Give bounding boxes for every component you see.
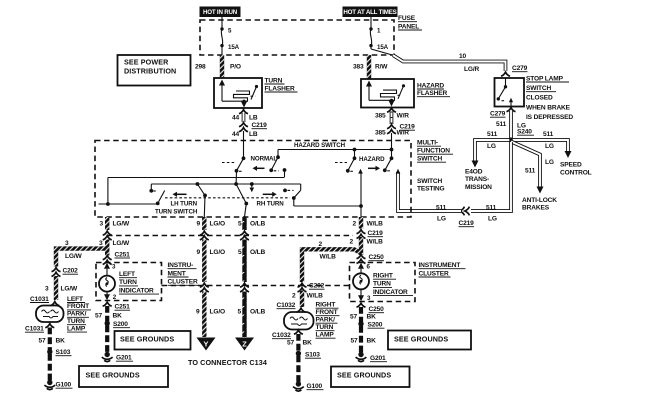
svg-text:511: 511 <box>525 168 536 175</box>
svg-text:TESTING: TESTING <box>417 186 445 193</box>
svg-text:LG/R: LG/R <box>464 66 480 73</box>
svg-text:C1032: C1032 <box>277 302 296 309</box>
svg-text:IS DEPRESSED: IS DEPRESSED <box>526 114 573 121</box>
wire 3 LG/W below switch <box>100 217 131 230</box>
connector C1032 upper <box>277 302 306 312</box>
wire 511 LG to anti-lock brakes <box>511 142 554 194</box>
svg-text:S240: S240 <box>517 129 532 136</box>
svg-text:PARK/: PARK/ <box>316 317 336 324</box>
svg-text:SEE GROUNDS: SEE GROUNDS <box>394 335 448 344</box>
svg-text:TURN SWITCH: TURN SWITCH <box>155 209 198 216</box>
svg-text:G201: G201 <box>370 355 386 362</box>
splice S200 right <box>358 321 384 328</box>
turn flasher label <box>265 77 298 92</box>
wire 44 LB into switch <box>243 141 245 159</box>
svg-text:SWITCH: SWITCH <box>417 156 442 163</box>
node anti-lock brakes <box>522 197 557 212</box>
svg-text:HOT AT ALL TIMES: HOT AT ALL TIMES <box>343 9 396 16</box>
svg-text:E4OD: E4OD <box>465 169 483 176</box>
svg-text:O/LB: O/LB <box>250 249 266 256</box>
svg-text:SEE GROUNDS: SEE GROUNDS <box>337 371 391 380</box>
svg-text:3: 3 <box>45 286 49 293</box>
wire 3 LG/W to left lamp <box>45 276 78 300</box>
svg-text:FLASHER: FLASHER <box>265 85 295 92</box>
svg-text:LG/W: LG/W <box>61 286 79 293</box>
turn flasher U1 <box>214 78 262 108</box>
svg-text:G100: G100 <box>307 383 323 390</box>
svg-text:INSTRUMENT: INSTRUMENT <box>419 262 461 269</box>
svg-text:LG: LG <box>545 143 554 150</box>
power label HOT IN RUN <box>200 7 241 18</box>
bus to hazard output <box>294 204 363 208</box>
svg-text:C219: C219 <box>368 230 384 237</box>
svg-text:STOP LAMP: STOP LAMP <box>526 75 564 82</box>
svg-text:HOT IN RUN: HOT IN RUN <box>203 9 238 16</box>
instrument cluster bottom boundary <box>162 285 350 287</box>
connector C250 <box>357 254 385 263</box>
svg-text:383: 383 <box>353 63 364 70</box>
see power distribution note box <box>118 55 191 86</box>
svg-text:S103: S103 <box>56 349 71 356</box>
svg-text:S200: S200 <box>113 321 128 328</box>
svg-text:RIGHT: RIGHT <box>316 302 336 309</box>
svg-text:TO CONNECTOR C134: TO CONNECTOR C134 <box>188 358 267 367</box>
left lamp label <box>67 296 91 333</box>
svg-text:Z: Z <box>242 340 247 349</box>
ground G100 right <box>293 381 324 391</box>
wire 2 W/LB branch to right lamp <box>302 241 361 282</box>
svg-text:S200: S200 <box>368 322 383 329</box>
connector on LG/O at cluster <box>200 231 209 240</box>
wire 511 LG to speed control <box>513 131 572 158</box>
splice S240 <box>508 129 534 143</box>
connector C1031 lower <box>25 324 54 333</box>
svg-text:2: 2 <box>292 293 296 300</box>
svg-text:BRAKES: BRAKES <box>522 205 550 212</box>
wire 385 W/R into switch <box>391 141 393 150</box>
splice S200 left <box>105 321 131 328</box>
splice S103 right <box>296 351 321 359</box>
connector C251 upper <box>103 251 130 264</box>
wire BK to G100 right <box>296 356 300 384</box>
svg-text:CLUSTER: CLUSTER <box>419 270 449 277</box>
wire 5 O/LB mid <box>238 240 266 283</box>
svg-text:LG/W: LG/W <box>65 253 83 260</box>
svg-text:LG/O: LG/O <box>210 249 226 256</box>
svg-text:BK: BK <box>56 337 66 344</box>
svg-text:CLOSED: CLOSED <box>526 95 553 102</box>
svg-text:RH TURN: RH TURN <box>257 200 285 207</box>
svg-text:C250: C250 <box>369 254 385 261</box>
svg-text:C250: C250 <box>369 306 385 313</box>
right turn indicator lamp <box>353 273 369 289</box>
svg-text:C202: C202 <box>63 268 79 275</box>
wire 3 LG/W to junction <box>99 240 130 256</box>
svg-text:5: 5 <box>238 221 242 228</box>
svg-text:FLASHER: FLASHER <box>417 90 447 97</box>
connector arrow Y <box>197 338 216 351</box>
svg-text:LAMP: LAMP <box>67 325 86 332</box>
fuse 5 (15A) <box>220 27 239 51</box>
left front park/turn lamp E1 <box>36 306 64 323</box>
svg-text:Y: Y <box>204 340 209 349</box>
wire 44 LB upper <box>232 113 258 122</box>
svg-text:57: 57 <box>351 338 359 345</box>
to connector C134 label <box>188 358 267 367</box>
wire 5 O/LB below switch <box>238 217 266 230</box>
normal contacts <box>235 155 287 177</box>
svg-text:C279: C279 <box>490 111 506 118</box>
svg-text:MENT: MENT <box>168 270 186 277</box>
svg-text:385: 385 <box>375 129 386 136</box>
svg-text:511: 511 <box>543 131 554 138</box>
svg-text:LEFT: LEFT <box>67 296 83 303</box>
right turn indicator exit arrow <box>358 289 371 302</box>
svg-text:FUNCTION: FUNCTION <box>417 148 450 155</box>
wire 385 W/R lower <box>375 129 409 140</box>
svg-text:5: 5 <box>238 309 242 316</box>
svg-text:P/O: P/O <box>230 63 241 70</box>
svg-text:3: 3 <box>100 221 104 228</box>
svg-text:2: 2 <box>353 221 357 228</box>
svg-text:298: 298 <box>195 63 206 70</box>
multi-function switch dashed box <box>95 141 411 218</box>
svg-text:SEE POWER: SEE POWER <box>124 58 169 67</box>
svg-text:C219: C219 <box>252 122 268 129</box>
svg-text:LG/W: LG/W <box>113 221 131 228</box>
svg-text:LG: LG <box>488 216 497 223</box>
svg-text:W/LB: W/LB <box>320 254 337 261</box>
svg-text:SEE GROUNDS: SEE GROUNDS <box>120 335 174 344</box>
svg-text:W/R: W/R <box>397 113 410 120</box>
svg-text:O/LB: O/LB <box>250 309 266 316</box>
wire 57 BK cluster left <box>95 306 122 322</box>
bus L2 <box>151 182 300 186</box>
svg-text:C219: C219 <box>459 220 475 227</box>
svg-text:LG: LG <box>545 159 554 166</box>
ground G100 left <box>44 380 72 390</box>
connector C219 (511 LG) <box>459 207 475 227</box>
svg-text:INDICATOR: INDICATOR <box>119 287 154 294</box>
wire 9 LG/O lower <box>196 292 225 338</box>
junction LG/W branch <box>56 240 107 266</box>
svg-text:HAZARD: HAZARD <box>359 156 385 163</box>
wire 511 LG splice to C219 <box>471 142 511 223</box>
ground G201 left <box>102 352 133 362</box>
svg-text:RIGHT: RIGHT <box>373 273 393 280</box>
svg-text:TURN: TURN <box>316 324 334 331</box>
svg-text:44: 44 <box>232 115 240 122</box>
hazard switch bus <box>278 142 393 157</box>
left turn indicator lamp <box>99 276 115 292</box>
svg-text:HAZARD: HAZARD <box>417 82 444 89</box>
mech link dashes normal <box>222 162 236 164</box>
svg-text:W/LB: W/LB <box>367 221 384 228</box>
RH turn contact group <box>236 184 301 217</box>
connector C279 lower <box>490 108 516 118</box>
svg-text:C251: C251 <box>115 304 131 311</box>
wire BK to G201 right <box>351 326 377 354</box>
connector C202 left <box>52 268 79 277</box>
wire 57 BK cluster right <box>350 307 376 322</box>
wire 511 LG stop lamp to splice <box>496 111 526 138</box>
ground G201 right <box>356 352 387 362</box>
wire 511 LG C219 to multifunction switch <box>398 172 461 223</box>
svg-text:INSTRU-: INSTRU- <box>168 262 194 269</box>
connector on LG/O at cluster bottom <box>200 283 209 292</box>
svg-text:LB: LB <box>249 115 258 122</box>
right lamp label <box>316 302 340 339</box>
svg-text:LEFT: LEFT <box>119 271 135 278</box>
connector C219 (W/LB) <box>357 230 384 239</box>
wire 9 LG/O mid <box>197 240 226 283</box>
svg-text:LAMP: LAMP <box>316 332 335 339</box>
svg-text:511: 511 <box>487 131 498 138</box>
stop lamp switch S1 <box>495 78 525 107</box>
connector on LG/W at cluster <box>103 231 112 240</box>
svg-text:LH TURN: LH TURN <box>171 200 198 207</box>
svg-text:WHEN BRAKE: WHEN BRAKE <box>526 104 571 111</box>
wire W/LB inside switch <box>360 171 362 218</box>
wiper to LG/O output <box>197 184 207 217</box>
svg-text:W/R: W/R <box>397 129 410 136</box>
svg-text:S103: S103 <box>305 352 320 359</box>
svg-text:TURN: TURN <box>265 77 283 84</box>
svg-text:C1032: C1032 <box>272 332 291 339</box>
svg-text:R/W: R/W <box>375 63 388 70</box>
wire 2 W/LB below switch <box>353 217 384 229</box>
wire 383 R/W <box>353 55 388 79</box>
svg-text:57: 57 <box>350 314 358 321</box>
svg-text:ANTI-LOCK: ANTI-LOCK <box>522 197 557 204</box>
connector arrow Z <box>235 338 254 351</box>
wire BK to G201 left <box>105 326 109 355</box>
connector on O/LB at cluster bottom <box>240 283 249 292</box>
left turn indicator exit arrow <box>104 292 117 301</box>
svg-text:LG/O: LG/O <box>210 221 226 228</box>
mech link dashes hazard <box>335 162 347 164</box>
turn switch label <box>155 209 198 216</box>
bus L1 <box>108 177 285 179</box>
svg-text:NORMAL: NORMAL <box>251 155 278 162</box>
svg-text:5: 5 <box>238 249 242 256</box>
wire 511 LG to E4OD <box>472 131 510 168</box>
svg-text:O/LB: O/LB <box>250 221 266 228</box>
svg-text:FRONT: FRONT <box>67 303 89 310</box>
svg-text:BK: BK <box>113 313 123 320</box>
connector C219 (44 LB) <box>239 122 267 132</box>
svg-text:SPEED: SPEED <box>560 162 582 169</box>
svg-text:15A: 15A <box>377 44 389 51</box>
svg-text:9: 9 <box>197 221 201 228</box>
connector C251 lower <box>103 302 130 310</box>
svg-text:2: 2 <box>319 241 323 248</box>
fuse panel dashed box <box>200 20 394 55</box>
fuse panel label <box>398 15 422 30</box>
left turn indicator entry arrow <box>104 263 116 276</box>
svg-text:9: 9 <box>196 309 200 316</box>
svg-text:INDICATOR: INDICATOR <box>373 289 408 296</box>
svg-text:LG/O: LG/O <box>210 309 226 316</box>
svg-text:C202: C202 <box>309 283 325 290</box>
svg-text:G100: G100 <box>56 382 72 389</box>
svg-text:LB: LB <box>249 131 258 138</box>
power label HOT AT ALL TIMES <box>343 7 398 18</box>
multi-function switch label <box>417 140 453 163</box>
connector C1031 upper <box>30 296 59 306</box>
wire fuse 5 to panel edge <box>221 46 223 55</box>
svg-text:MISSION: MISSION <box>465 184 492 191</box>
switch testing label <box>417 178 445 193</box>
svg-text:10: 10 <box>459 53 467 60</box>
wire 2 W/LB to right lamp <box>292 291 323 308</box>
svg-text:TURN: TURN <box>373 281 391 288</box>
svg-text:W/LB: W/LB <box>367 239 384 246</box>
svg-text:MULTI-: MULTI- <box>417 140 438 147</box>
connector below turn flasher <box>239 110 248 114</box>
svg-text:FUSE: FUSE <box>398 15 416 22</box>
svg-text:385: 385 <box>375 113 386 120</box>
svg-text:CLUSTER: CLUSTER <box>168 279 198 286</box>
hazard flasher U2 <box>361 79 414 108</box>
wire 57 BK left lamp <box>39 328 66 351</box>
svg-text:W/LB: W/LB <box>307 293 324 300</box>
svg-text:SWITCH: SWITCH <box>526 85 551 92</box>
svg-text:3: 3 <box>65 240 69 247</box>
hazard flasher label <box>417 82 450 97</box>
svg-text:PANEL: PANEL <box>398 23 419 30</box>
svg-text:511: 511 <box>486 205 497 212</box>
svg-text:57: 57 <box>287 340 295 347</box>
wire fuse 1 down and diagonal to LG/R <box>371 46 394 56</box>
svg-text:15A: 15A <box>228 44 240 51</box>
instrument cluster label left <box>168 262 200 286</box>
connector C250 lower <box>357 303 385 313</box>
instrument cluster top boundary <box>107 235 353 237</box>
see grounds box bottom-left <box>79 366 168 387</box>
svg-text:C251: C251 <box>115 251 131 258</box>
connector C279 upper <box>501 65 528 76</box>
svg-text:DISTRIBUTION: DISTRIBUTION <box>124 67 176 76</box>
svg-text:44: 44 <box>232 131 240 138</box>
svg-text:BK: BK <box>367 338 377 345</box>
svg-text:TURN: TURN <box>67 318 85 325</box>
hazard contacts <box>346 150 400 174</box>
svg-text:BK: BK <box>367 314 377 321</box>
right front park/turn lamp E2 <box>284 312 314 330</box>
wire BK to G100 left <box>48 354 52 382</box>
splice S103 left <box>47 349 71 356</box>
right turn indicator label <box>373 273 413 296</box>
wire 57 BK right lamp <box>287 334 312 352</box>
connector on O/LB at cluster <box>240 231 249 240</box>
svg-text:511: 511 <box>496 121 507 128</box>
left turn indicator label <box>119 271 159 294</box>
see grounds box mid-left <box>115 331 191 350</box>
wire 9 LG/O below switch <box>197 217 226 230</box>
wire 5 O/LB lower <box>238 292 266 338</box>
svg-text:LG: LG <box>487 143 496 150</box>
wire from HOT AT ALL TIMES to fuse 1 <box>370 17 372 28</box>
right turn indicator dashed box <box>350 263 416 302</box>
see grounds box mid-right <box>388 331 471 350</box>
svg-text:C1031: C1031 <box>25 326 44 333</box>
svg-text:SWITCH: SWITCH <box>417 178 442 185</box>
svg-text:C1031: C1031 <box>30 296 49 303</box>
node speed control <box>560 162 592 177</box>
svg-text:PARK/: PARK/ <box>67 311 87 318</box>
svg-text:57: 57 <box>39 337 47 344</box>
svg-text:TURN: TURN <box>119 279 137 286</box>
wire from HOT IN RUN to fuse 5 <box>221 17 223 28</box>
wire normal-left to L2 <box>235 171 237 184</box>
svg-text:G201: G201 <box>116 355 132 362</box>
connector C219 (385 W/R) <box>387 124 415 134</box>
connector below hazard flasher <box>387 108 396 112</box>
svg-text:C279: C279 <box>512 65 528 72</box>
svg-text:2: 2 <box>350 239 354 246</box>
see grounds box bottom-right <box>331 367 410 388</box>
right turn indicator entry arrow <box>358 263 371 274</box>
svg-text:FRONT: FRONT <box>316 309 338 316</box>
wire 385 W/R upper <box>375 112 409 125</box>
LH turn contact group <box>99 178 198 208</box>
instrument cluster label right <box>419 262 466 277</box>
mech linkage turn switch <box>165 197 290 199</box>
wire 2 W/LB mid <box>350 237 384 255</box>
svg-text:BK: BK <box>303 340 313 347</box>
wire 44 LB lower <box>232 131 258 141</box>
svg-text:HAZARD SWITCH: HAZARD SWITCH <box>294 142 346 149</box>
connector C202 right <box>298 283 325 292</box>
svg-text:57: 57 <box>95 313 103 320</box>
svg-text:9: 9 <box>197 249 201 256</box>
svg-text:511: 511 <box>436 205 447 212</box>
stop lamp switch label <box>526 75 573 121</box>
node E4OD transmission <box>465 169 492 191</box>
svg-text:TRANS-: TRANS- <box>465 176 489 183</box>
svg-text:LG: LG <box>437 216 446 223</box>
connector C1032 lower <box>272 330 303 339</box>
svg-text:SEE GROUNDS: SEE GROUNDS <box>86 370 140 379</box>
svg-text:CONTROL: CONTROL <box>560 169 592 176</box>
left turn indicator dashed box <box>96 263 162 301</box>
fuse 1 (15A) <box>369 27 388 51</box>
wire 298 P/O <box>195 55 241 78</box>
svg-text:LG/W: LG/W <box>113 240 131 247</box>
wire 10 LG/R <box>393 53 506 73</box>
svg-text:3: 3 <box>99 240 103 247</box>
